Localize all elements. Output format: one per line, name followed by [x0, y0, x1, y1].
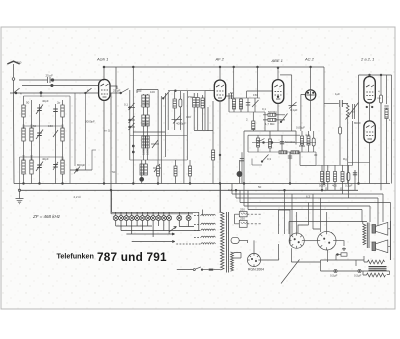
tube AGh1 U1 [99, 79, 110, 100]
trimmer C35 low [153, 164, 161, 172]
svg-text:787 und 791: 787 und 791 [97, 250, 167, 264]
coil L15 low [142, 132, 145, 160]
svg-text:250: 250 [240, 217, 245, 221]
resistor R18 horizontal [279, 151, 287, 154]
svg-text:AC 2: AC 2 [304, 57, 315, 62]
svg-text:1000: 1000 [145, 149, 149, 155]
switch S1 [14, 88, 20, 184]
resistor R5 under AF2 [212, 150, 215, 160]
svg-text:Rg: Rg [343, 157, 347, 161]
wafer contact W2 [119, 216, 124, 221]
bus h209.5 [248, 209, 362, 211]
wire right of left block [74, 96, 76, 166]
wire sockets link [304, 240, 317, 242]
capacitor C28 250 box [239, 220, 247, 227]
wire v233.7 from bus [233, 67, 235, 98]
wire rail up [110, 190, 112, 214]
wire h162.5 right [348, 162, 370, 164]
coil L22 low [144, 160, 147, 175]
trimmer C15 [151, 140, 159, 148]
tube AF2 U2 [214, 80, 225, 101]
svg-text:200: 200 [141, 121, 145, 126]
wire bank right vertical [179, 212, 199, 230]
wire v356 [355, 260, 357, 266]
wire v220 down [219, 155, 221, 213]
svg-text:2000pF: 2000pF [85, 120, 95, 124]
coil L5 8018 [22, 160, 25, 174]
wire sec top [220, 184, 222, 213]
wire h74.5 link [280, 74, 292, 76]
wire socketV9 top [326, 212, 328, 231]
wire v383 drop to speaker [382, 194, 384, 222]
capacitor C33 pill [339, 107, 342, 165]
wafer contact W10 [161, 216, 166, 221]
coil L3 [53, 104, 58, 184]
capacitor C20 pill 4uF [312, 131, 315, 152]
switch S4 [162, 91, 169, 99]
wafer contact W7 [145, 216, 150, 221]
coil L20 driver [346, 104, 354, 119]
node B [175, 90, 177, 92]
wire v336 down [335, 255, 337, 261]
svg-text:RGN 2004: RGN 2004 [248, 268, 264, 272]
collector h226 [116, 225, 152, 227]
svg-text:100: 100 [239, 104, 243, 109]
linkage arrow a1 [170, 233, 175, 235]
wire h135.2 [248, 134, 300, 136]
wire h99 coupling to output [324, 103, 339, 105]
trimmer C7 [70, 167, 92, 174]
capacitor C26 [384, 106, 388, 108]
svg-text:100: 100 [150, 90, 155, 94]
svg-text:100: 100 [145, 101, 149, 106]
switch bank wafer contacts [112, 190, 201, 242]
coil L12 200 [142, 115, 145, 126]
bus h202.5 [240, 202, 391, 204]
node bus dot1 [219, 66, 221, 68]
wire cap to coil [342, 104, 347, 105]
wire v358.5 [358, 75, 360, 184]
svg-text:m Ω: m Ω [105, 129, 111, 133]
wire v161 [160, 96, 162, 184]
wafer contact W1 [113, 216, 118, 221]
wire socketB down [291, 248, 327, 262]
rectifier socket RGN2004 V7 [247, 253, 260, 266]
wire h135 lower mid [130, 135, 187, 137]
svg-text:6,3: 6,3 [306, 195, 310, 199]
collector h234 [126, 233, 170, 235]
resistor R8 vertical [252, 112, 255, 131]
capacitor C27 250 box [239, 212, 247, 217]
capacitor C16 dot [237, 160, 242, 184]
field coil zigzag bottom [367, 273, 386, 277]
speaker SP2 cone [372, 240, 388, 253]
wire h131 [244, 130, 296, 132]
wire v183.9 [183, 93, 185, 184]
tube ABE1 U3 [272, 80, 283, 104]
svg-text:800pF: 800pF [77, 163, 85, 167]
svg-text:1500: 1500 [141, 149, 145, 155]
wire caps right dashes [247, 214, 262, 224]
svg-text:0,3: 0,3 [267, 157, 271, 161]
wire v244 drop [243, 184, 245, 207]
bus h198 [236, 197, 378, 199]
bus h194 [232, 193, 383, 195]
svg-text:30: 30 [314, 153, 318, 157]
svg-text:AGh 1: AGh 1 [96, 57, 108, 62]
wire v290 frame [279, 210, 291, 244]
vertical coil labels [22, 101, 244, 161]
bottom right box [321, 260, 390, 275]
tube 2a2-1a U5 [364, 77, 375, 104]
wire v284.5 [284, 190, 286, 234]
wire v236 drop [235, 190, 237, 198]
wire v352.6 down [352, 121, 354, 165]
switch S3 after AGh1 [110, 86, 129, 94]
wire v240 drop [239, 190, 241, 202]
svg-text:0,1: 0,1 [228, 188, 232, 192]
transformer core [227, 212, 229, 273]
antenna [7, 61, 19, 80]
wire U5 top [369, 75, 371, 77]
wire speaker links [388, 221, 391, 260]
wire v158 [157, 90, 159, 161]
resistor R11 [321, 165, 324, 190]
resistor R6 horizontal [263, 113, 285, 116]
tube 2a2-1b U6 [364, 121, 375, 143]
bus h206 [244, 205, 370, 207]
wire v362 drop [361, 210, 363, 223]
coil L21 low [140, 160, 144, 184]
transformer primary row3 [194, 229, 215, 230]
transformer primary row1 [194, 214, 215, 215]
wire h98 cluster top [229, 97, 260, 99]
capacitor C5 upper row [36, 105, 43, 115]
resistor R10 1M [307, 131, 310, 152]
wafer contact W5 [135, 216, 140, 221]
resistor R15 far right [385, 75, 392, 184]
bus B+ top [104, 66, 324, 68]
tube socket V8 [289, 233, 304, 248]
capacitor C32 dot [358, 269, 361, 272]
svg-text:100: 100 [137, 89, 142, 93]
coil L8 upper [22, 105, 25, 117]
wire v92 [92, 150, 96, 170]
wire h130 center [194, 130, 213, 132]
svg-text:1μF: 1μF [335, 92, 340, 96]
wire AF2 bottom down [219, 101, 221, 160]
svg-text:2p: 2p [57, 101, 61, 105]
bus h75 right [359, 74, 392, 76]
svg-text:50: 50 [230, 91, 234, 95]
transformer T1 right winding [231, 252, 234, 271]
pointer blade [170, 227, 177, 232]
svg-text:4μF: 4μF [305, 133, 310, 137]
coil L18 IF [232, 98, 235, 112]
svg-text:2 a 2, 1: 2 a 2, 1 [360, 57, 374, 62]
ground G1 [16, 189, 24, 204]
field coil core bars [369, 267, 387, 271]
svg-text:50: 50 [26, 101, 30, 105]
resistor R7 horizontal 1,7M [263, 118, 285, 121]
collector h237 [132, 241, 172, 243]
capacitor C2 [36, 104, 43, 184]
wire U6 bottom [369, 143, 371, 184]
capacitor C21 [288, 152, 292, 184]
resistor R3 low [157, 160, 160, 184]
svg-text:150: 150 [48, 124, 53, 128]
wire h142.5 detector [252, 142, 316, 144]
capacitor C29 oval [231, 237, 239, 243]
mains lead-in [177, 267, 221, 271]
wafer contact W6 [140, 216, 145, 221]
svg-text:25 pF: 25 pF [113, 89, 121, 93]
node A [15, 92, 17, 94]
svg-text:0,5μF: 0,5μF [354, 274, 362, 278]
capacitor C23 0,5uF [353, 170, 357, 190]
wire v168 [167, 93, 169, 130]
switch rail [112, 211, 199, 213]
node bus dot3 [277, 67, 279, 69]
wire row ties upper [24, 125, 63, 127]
wafer contact W3 [124, 216, 129, 221]
trimmer C12 [128, 123, 135, 130]
trimmer C14 4000pF [172, 116, 183, 124]
capacitor C4 trimmer [53, 162, 58, 170]
svg-text:150: 150 [232, 104, 236, 109]
wire row ties mid [20, 156, 63, 158]
resistor R17 det [269, 131, 272, 152]
capacitor C22 pill [347, 165, 350, 198]
wire v229 [228, 98, 230, 112]
resistor R1 [193, 93, 196, 130]
wire v292 [291, 194, 293, 236]
node mid dots [132, 145, 134, 147]
coil L14 [173, 91, 176, 130]
svg-text:1,7 MΩ: 1,7 MΩ [265, 122, 275, 126]
wire tube top to bus [103, 67, 105, 79]
capacitor C31 dot [334, 269, 337, 272]
rail ticks [116, 212, 189, 215]
svg-text:400: 400 [332, 184, 337, 188]
svg-text:700: 700 [145, 121, 149, 126]
coil L2 [30, 100, 33, 184]
wire socketV8 top [296, 212, 298, 233]
svg-text:50000Ω: 50000Ω [285, 140, 296, 144]
node bus dot2 [233, 66, 235, 68]
wafer contact W8 [151, 216, 156, 221]
svg-text:1800: 1800 [30, 155, 34, 161]
wire caps left [235, 214, 240, 224]
transformer T1 secondary winding [221, 212, 225, 270]
switch bank top rail [111, 213, 193, 215]
bus chassis y183.5 [14, 183, 390, 185]
coil L16 low [146, 132, 149, 160]
wire top of left block [24, 95, 71, 97]
wire v248b [247, 135, 249, 152]
coil L11 [146, 94, 149, 132]
field coil zigzag top [368, 260, 385, 264]
wafer contact W13 [186, 216, 191, 221]
wire v248 drop [247, 190, 249, 209]
coil L9 upper [61, 105, 64, 117]
tube socket V9 [317, 231, 336, 250]
svg-text:PbR: PbR [188, 95, 194, 99]
pot P2 arrow [346, 103, 359, 120]
wire AC2 plate down [310, 100, 312, 131]
wafer contact W12 [177, 216, 182, 221]
svg-text:40pF: 40pF [42, 99, 49, 103]
wire v300c [299, 152, 301, 165]
capacitor C13 pill [179, 91, 182, 130]
svg-text:150: 150 [61, 124, 65, 129]
wire v165.5 [165, 93, 167, 157]
wire U5 to U6 [369, 103, 371, 121]
pot P1 with arrow [289, 102, 297, 109]
wire v316 [300, 152, 316, 165]
wire v246.6 grid [247, 91, 273, 98]
wire v370 drop [369, 206, 371, 222]
capacitor C24 1uF [340, 100, 343, 107]
svg-text:5000Ω: 5000Ω [268, 110, 277, 114]
transformer primary row5 [176, 243, 215, 244]
resistor R14 [341, 165, 344, 194]
transformer primary row2 [194, 223, 215, 224]
svg-text:600: 600 [22, 124, 26, 129]
svg-text:ZF = 468 kHz: ZF = 468 kHz [32, 214, 61, 219]
svg-text:4000pF: 4000pF [176, 122, 186, 126]
wire v265 [264, 112, 266, 131]
wire main grid line left [10, 92, 99, 94]
wire v202.4 up [201, 210, 203, 216]
coil L13 [146, 115, 149, 126]
svg-text:250: 250 [240, 208, 245, 212]
trimmer C10 [128, 103, 135, 110]
node C [219, 154, 221, 156]
wire rail up2 [111, 190, 113, 212]
wire v129.8 [129, 90, 131, 160]
svg-text:300: 300 [17, 61, 22, 65]
svg-text:150: 150 [253, 93, 258, 97]
coil L7 500 [61, 160, 64, 174]
capacitor C36 [240, 152, 244, 183]
resistor R4 low [174, 160, 192, 184]
coil L1 600 [22, 96, 25, 184]
svg-text:0,1: 0,1 [124, 103, 128, 107]
wire v213 [212, 101, 214, 184]
wire h165.4 [300, 164, 353, 166]
resistor R9 50000 [301, 131, 304, 152]
wire h244.5 [239, 239, 248, 241]
svg-text:0,5μF: 0,5μF [345, 184, 353, 188]
wire v381 [380, 75, 382, 190]
capacitor C17 [226, 93, 233, 99]
resistor R12 [326, 165, 329, 190]
coil L19 IF [239, 98, 242, 112]
wire socket right [261, 244, 279, 260]
wire field coil ends [363, 256, 368, 275]
capacitor 25pF [19, 77, 104, 83]
wire T2 top [289, 222, 367, 235]
coil L10 150 [142, 94, 145, 132]
svg-text:ABE 1: ABE 1 [271, 58, 283, 63]
resistor R16 det [257, 135, 260, 152]
svg-text:8018: 8018 [22, 155, 26, 161]
wire coil bottom down [347, 118, 349, 183]
svg-text:2,2 Ω: 2,2 Ω [74, 195, 82, 199]
capacitor C3 trimmer [36, 162, 43, 172]
wire v378 drop [377, 198, 379, 227]
speaker SP1 magnet [372, 222, 388, 235]
wire AGh1 cathode down [103, 100, 105, 183]
trimmer C19 [252, 66, 259, 112]
svg-text:AF 2: AF 2 [215, 57, 225, 62]
wafer contact W4 [129, 216, 134, 221]
wire AC2 grid left [301, 94, 306, 131]
wire AC2 top feed [310, 67, 312, 90]
svg-text:160: 160 [30, 124, 34, 129]
wafer contact W11 [167, 216, 172, 221]
switch S6 det [252, 155, 269, 166]
svg-text:150: 150 [141, 101, 145, 106]
wire transformer right taps [234, 253, 242, 259]
switch S2 [85, 88, 92, 94]
wafer contact W9 [156, 216, 161, 221]
wire v133.3 [132, 67, 134, 184]
svg-text:0,1μF: 0,1μF [290, 108, 298, 112]
wire top mid block [137, 90, 158, 94]
capacitor C25 pill [380, 95, 383, 103]
wire ABE1 top to bus [277, 68, 279, 80]
wire h152 [248, 151, 316, 153]
wire h112 cluster bottom [229, 111, 265, 113]
coil L17 [201, 95, 204, 130]
linkage arrow a2 [172, 241, 175, 243]
output transformer T2 [363, 223, 369, 249]
node right bus dots [369, 74, 371, 76]
coil L6 [30, 160, 33, 174]
resistor R2 [196, 93, 199, 130]
wire v296 [295, 131, 297, 145]
wire v313 [313, 194, 320, 229]
svg-text:25 pF: 25 pF [46, 74, 54, 78]
wire v288.5 [291, 75, 293, 131]
svg-text:50: 50 [258, 185, 262, 189]
wire h132 lower mid [133, 131, 165, 133]
svg-text:0,1: 0,1 [262, 107, 266, 111]
trimmer C11 [128, 116, 135, 123]
wire h158-160 bottom mid [130, 159, 188, 161]
svg-text:8000: 8000 [354, 121, 361, 125]
wire v320.5 [320, 198, 322, 232]
svg-text:Telefunken: Telefunken [57, 252, 94, 261]
wire v308.5 [298, 203, 309, 234]
wire upper coupling line [22, 85, 99, 87]
switch S5 [280, 114, 287, 123]
collector h230.5 [121, 230, 200, 232]
wire v386.5 [386, 75, 388, 104]
wire AF2 top to bus [219, 67, 221, 80]
wire v187.3 [186, 91, 188, 160]
wire ABE1 bottom down [277, 103, 279, 131]
wire v232 drop [231, 184, 233, 195]
svg-text:300: 300 [186, 115, 191, 119]
coil L4 150 [61, 100, 64, 184]
tube AC2 U4 [305, 90, 315, 100]
svg-text:0,05μF: 0,05μF [296, 126, 305, 130]
resistor R13 [334, 165, 337, 190]
wire AC2 bus [323, 67, 325, 184]
